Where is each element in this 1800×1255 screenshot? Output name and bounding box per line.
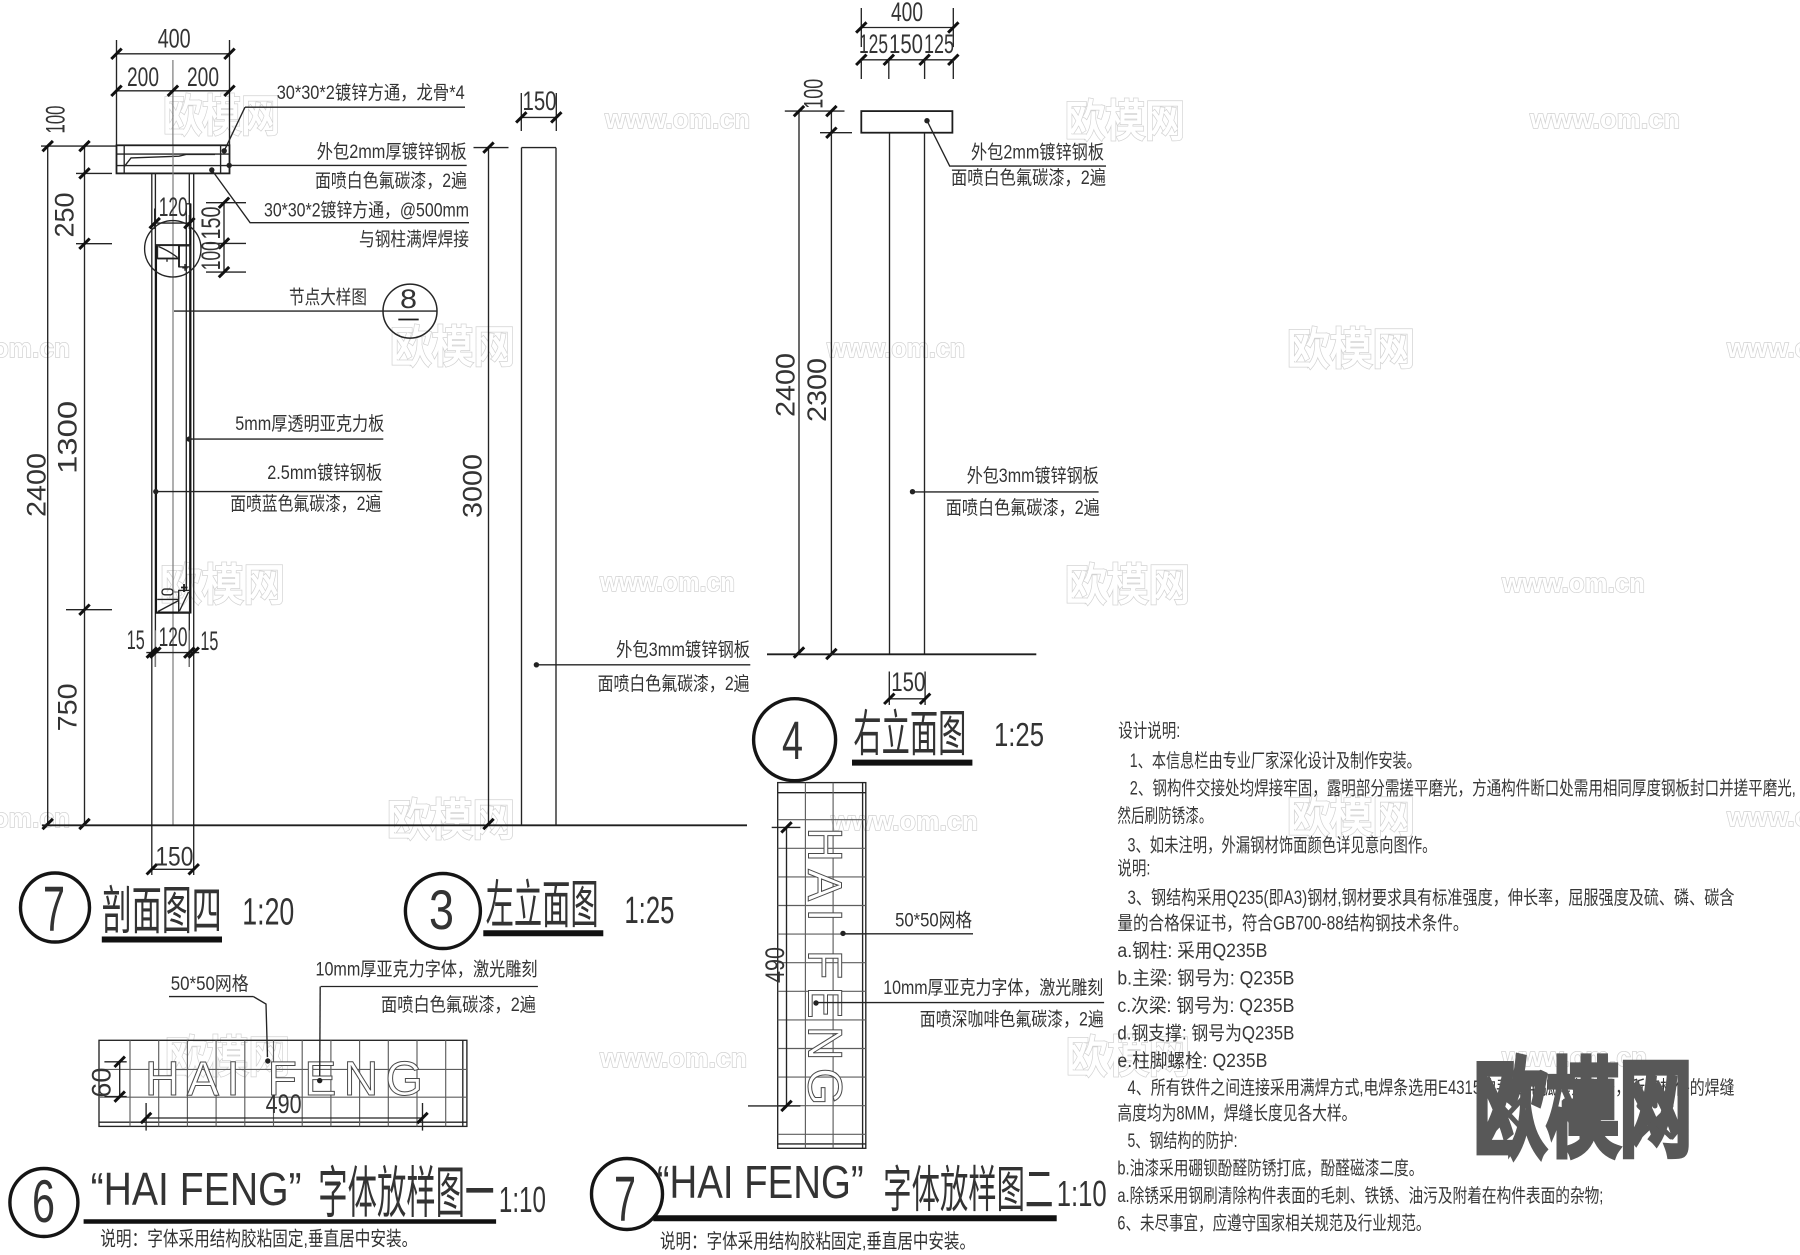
svg-text:www.om.cn: www.om.cn [1501, 568, 1645, 598]
fig7 dim 150 below ground [150, 868, 195, 870]
svg-text:125: 125 [859, 29, 888, 59]
svg-text:c.次梁: 钢号为: Q235B: c.次梁: 钢号为: Q235B [1117, 995, 1294, 1017]
svg-text:30*30*2镀锌方通，龙骨*4: 30*30*2镀锌方通，龙骨*4 [277, 82, 465, 104]
fig4 annotation column waibao 3mm [910, 489, 915, 494]
fig6 panel grid [99, 1040, 467, 1126]
svg-text:1:25: 1:25 [624, 890, 674, 932]
svg-text:5、钢结构的防护:: 5、钢结构的防护: [1128, 1130, 1238, 1152]
svg-text:15: 15 [200, 626, 218, 656]
svg-text:www.om.cn: www.om.cn [599, 567, 735, 597]
svg-text:3000: 3000 [458, 454, 488, 518]
svg-text:欧模网: 欧模网 [390, 323, 515, 372]
svg-text:“HAI FENG”: “HAI FENG” [91, 1163, 302, 1215]
svg-text:1300: 1300 [53, 401, 83, 474]
fig4 dim 2400 [798, 111, 800, 654]
fig7 bubble 7 [21, 873, 90, 942]
fig7 cap dim 200+200 [172, 60, 174, 145]
svg-text:150: 150 [891, 667, 925, 697]
svg-text:120: 120 [159, 192, 188, 222]
svg-text:2.5mm镀锌钢板: 2.5mm镀锌钢板 [267, 462, 382, 484]
svg-text:2、钢构件交接处均焊接牢固，露明部分需搓平磨光，方通构件断口: 2、钢构件交接处均焊接牢固，露明部分需搓平磨光，方通构件断口处需用相同厚度钢板封… [1130, 778, 1796, 800]
svg-text:150: 150 [523, 86, 557, 116]
svg-text:“HAI FENG”: “HAI FENG” [657, 1156, 864, 1208]
fig7 sign panel box [189, 204, 191, 614]
fig4 dim 150 below ground [888, 672, 890, 706]
svg-text:面喷白色氟碳漆，2遍: 面喷白色氟碳漆，2遍 [598, 673, 750, 695]
svg-text:8: 8 [400, 284, 417, 314]
svg-text:490: 490 [760, 947, 790, 983]
svg-text:与钢柱满焊焊接: 与钢柱满焊焊接 [359, 229, 469, 251]
svg-text:www.om.cn: www.om.cn [0, 333, 70, 363]
ground line fig7/fig3 [42, 824, 747, 826]
fig3 column [521, 148, 523, 826]
svg-text:150: 150 [889, 29, 923, 59]
svg-text:2300: 2300 [802, 358, 832, 422]
svg-text:750: 750 [53, 683, 83, 731]
fig7-2 annotation 10mm acrylic [813, 1000, 818, 1005]
svg-text:左立面图: 左立面图 [486, 877, 599, 935]
svg-text:250: 250 [50, 193, 80, 238]
fig6 dim 60 [104, 1061, 126, 1063]
svg-text:1、本信息栏由专业厂家深化设计及制作安装。: 1、本信息栏由专业厂家深化设计及制作安装。 [1130, 750, 1421, 772]
fig7 column verticals [151, 173, 153, 875]
svg-text:www.om.cn: www.om.cn [604, 104, 750, 134]
svg-text:欧模网: 欧模网 [387, 796, 515, 845]
svg-text:高度均为8MM，焊缝长度见各大样。: 高度均为8MM，焊缝长度见各大样。 [1117, 1103, 1356, 1125]
svg-text:量的合格保证书，符合GB700-88结构钢技术条件。: 量的合格保证书，符合GB700-88结构钢技术条件。 [1117, 913, 1468, 935]
svg-text:5mm厚透明亚克力板: 5mm厚透明亚克力板 [235, 413, 384, 435]
fig3 bubble 3 [405, 874, 480, 949]
svg-text:150: 150 [155, 842, 193, 872]
fig7 dim 15/120/15 below panel [146, 652, 199, 654]
svg-text:1:20: 1:20 [242, 892, 294, 934]
svg-text:7: 7 [614, 1163, 636, 1235]
svg-text:6: 6 [32, 1168, 55, 1235]
fig7-2 annotation 50*50 grid [840, 931, 845, 936]
svg-text:6、未尽事宜，应遵守国家相关规范及行业规范。: 6、未尽事宜，应遵守国家相关规范及行业规范。 [1117, 1213, 1430, 1235]
svg-text:www.om.cn: www.om.cn [1529, 104, 1680, 134]
svg-text:490: 490 [266, 1089, 302, 1119]
svg-text:100: 100 [799, 79, 829, 109]
fig6 dim 490 [145, 1103, 147, 1131]
svg-text:3、钢结构采用Q235(即A3)钢材,钢材要求具有标准强度，: 3、钢结构采用Q235(即A3)钢材,钢材要求具有标准强度，伸长率，屈服强度及硫… [1128, 887, 1735, 909]
svg-text:2400: 2400 [771, 353, 801, 417]
fig4 dim 125/150/125 [861, 59, 953, 61]
fig3 dim 150 top [520, 93, 522, 131]
svg-text:7: 7 [43, 873, 65, 945]
svg-text:200: 200 [127, 62, 159, 92]
svg-text:www.om.cn: www.om.cn [1726, 802, 1800, 832]
svg-text:设计说明:: 设计说明: [1118, 720, 1180, 742]
svg-text:15: 15 [127, 625, 145, 655]
svg-text:a.除锈采用钢刷清除构件表面的毛刺、铁锈、油污及附着在构件表: a.除锈采用钢刷清除构件表面的毛刺、铁锈、油污及附着在构件表面的杂物; [1117, 1185, 1603, 1207]
svg-text:www.om.cn: www.om.cn [599, 1043, 747, 1073]
svg-text:说明：字体采用结构胶粘固定,垂直居中安装。: 说明：字体采用结构胶粘固定,垂直居中安装。 [660, 1230, 975, 1253]
svg-text:说明：字体采用结构胶粘固定,垂直居中安装。: 说明：字体采用结构胶粘固定,垂直居中安装。 [100, 1228, 417, 1251]
fig4 column [889, 133, 891, 655]
svg-text:欧模网: 欧模网 [1287, 325, 1415, 374]
svg-text:欧模网: 欧模网 [163, 92, 280, 141]
svg-text:b.油漆采用硼钡酚醛防锈打底，酚醛磁漆二度。: b.油漆采用硼钡酚醛防锈打底，酚醛磁漆二度。 [1117, 1158, 1423, 1180]
fig4 dim 400 top [860, 8, 862, 47]
svg-text:120: 120 [159, 622, 188, 652]
svg-text:60: 60 [87, 1068, 117, 1098]
svg-text:外包3mm镀锌钢板: 外包3mm镀锌钢板 [616, 639, 750, 661]
svg-text:www.om.cn: www.om.cn [1726, 333, 1800, 363]
svg-text:面喷白色氟碳漆，2遍: 面喷白色氟碳漆，2遍 [946, 497, 1100, 519]
fig6 bubble 6 [10, 1169, 78, 1237]
svg-text:字体放样图二: 字体放样图二 [883, 1162, 1053, 1218]
svg-text:外包2mm镀锌钢板: 外包2mm镀锌钢板 [971, 142, 1104, 164]
svg-text:然后刷防锈漆。: 然后刷防锈漆。 [1117, 805, 1212, 827]
svg-text:400: 400 [158, 24, 191, 54]
svg-text:1:10: 1:10 [499, 1179, 546, 1220]
fig4 cap [861, 111, 952, 133]
svg-text:www.om.cn: www.om.cn [0, 803, 70, 833]
svg-text:4: 4 [782, 711, 803, 771]
svg-text:b.主梁: 钢号为: Q235B: b.主梁: 钢号为: Q235B [1117, 968, 1294, 990]
svg-text:e.柱脚螺栓: Q235B: e.柱脚螺栓: Q235B [1117, 1050, 1267, 1072]
svg-text:2400: 2400 [21, 453, 51, 517]
svg-text:www.om.cn: www.om.cn [826, 333, 965, 363]
svg-text:外包3mm镀锌钢板: 外包3mm镀锌钢板 [967, 465, 1099, 487]
svg-text:字体放样图一: 字体放样图一 [318, 1162, 494, 1225]
fig7-2 bubble 7 [592, 1159, 663, 1230]
svg-text:150: 150 [196, 207, 226, 240]
fig7 dims 150/100 right of panel [206, 202, 246, 204]
svg-text:400: 400 [891, 0, 923, 27]
svg-text:www.om.cn: www.om.cn [830, 806, 978, 836]
fig4 ground line [767, 653, 1036, 655]
svg-text:右立面图: 右立面图 [853, 706, 966, 762]
fig7 cap break squiggle [125, 154, 216, 166]
fig7 cap top dim 400 [116, 40, 118, 145]
svg-text:面喷白色氟碳漆，2遍: 面喷白色氟碳漆，2遍 [315, 170, 467, 192]
fig3 dim 3000 [474, 147, 509, 149]
fig7 cap (400x100 steel head) [117, 145, 230, 173]
svg-text:50*50网格: 50*50网格 [895, 910, 972, 932]
fig7 left dim chain 100/250/1300/750 [41, 145, 116, 147]
svg-text:125: 125 [924, 29, 954, 59]
svg-text:欧模网: 欧模网 [1065, 561, 1190, 610]
fig3 annotation waibao 3mm plate [534, 662, 539, 667]
svg-text:10mm厚亚克力字体，激光雕刻: 10mm厚亚克力字体，激光雕刻 [883, 977, 1103, 999]
fig4 annotation cap waibao 2mm [924, 118, 929, 123]
svg-text:节点大样图: 节点大样图 [289, 287, 367, 309]
fig7 detail circle [145, 221, 201, 277]
fig7 overall dim 2400 [47, 146, 49, 824]
svg-text:面喷白色氟碳漆，2遍: 面喷白色氟碳漆，2遍 [951, 167, 1106, 189]
fig7-2 panel grid vertical [778, 783, 866, 1149]
svg-text:1:25: 1:25 [994, 716, 1044, 753]
svg-text:a.钢柱: 采用Q235B: a.钢柱: 采用Q235B [1117, 940, 1267, 962]
svg-text:面喷蓝色氟碳漆，2遍: 面喷蓝色氟碳漆，2遍 [230, 493, 381, 515]
svg-text:剖面图四: 剖面图四 [102, 883, 222, 941]
svg-text:1:10: 1:10 [1057, 1173, 1107, 1214]
fig4 bubble 4 [754, 699, 836, 781]
svg-text:外包2mm厚镀锌钢板: 外包2mm厚镀锌钢板 [317, 141, 467, 163]
fig7 dim 120 upper [154, 209, 156, 230]
fig7 bottom bracket detail [162, 589, 173, 595]
svg-text:50*50网格: 50*50网格 [171, 973, 249, 995]
svg-text:100: 100 [40, 106, 70, 134]
fig4 dim 100 left of cap [785, 110, 845, 112]
svg-text:d.钢支撑: 钢号为Q235B: d.钢支撑: 钢号为Q235B [1117, 1023, 1294, 1045]
svg-text:30*30*2镀锌方通，@500mm: 30*30*2镀锌方通，@500mm [264, 200, 469, 222]
fig4 dim 2300 [830, 133, 832, 655]
svg-text:面喷深咖啡色氟碳漆，2遍: 面喷深咖啡色氟碳漆，2遍 [920, 1009, 1104, 1031]
svg-text:欧模网: 欧模网 [1065, 97, 1185, 146]
fig7-2 dim 490 [772, 826, 801, 828]
svg-text:3: 3 [429, 878, 454, 941]
svg-text:100: 100 [196, 241, 226, 270]
svg-text:面喷白色氟碳漆，2遍: 面喷白色氟碳漆，2遍 [381, 994, 536, 1016]
svg-text:10mm厚亚克力字体，激光雕刻: 10mm厚亚克力字体，激光雕刻 [316, 959, 538, 981]
svg-text:3、如未注明，外漏钢材饰面颜色详见意向图作。: 3、如未注明，外漏钢材饰面颜色详见意向图作。 [1128, 835, 1437, 857]
fig7 top bracket detail [155, 244, 190, 246]
svg-text:说明:: 说明: [1117, 858, 1150, 880]
svg-text:200: 200 [187, 62, 219, 92]
